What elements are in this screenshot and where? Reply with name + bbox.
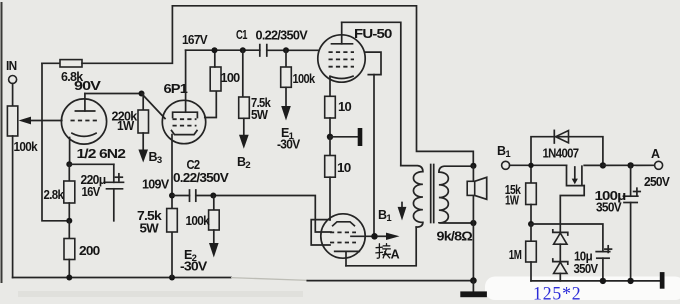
- svg-text:90V: 90V: [74, 79, 102, 93]
- wire V2 screen grid to 100 resistor: [205, 91, 217, 118]
- resistor 7.5k 5W plate load: [239, 50, 271, 122]
- node A terminal: [644, 147, 670, 189]
- scan border left edge: [1, 2, 3, 283]
- wire reference node horizontal: [531, 224, 603, 252]
- svg-text:2.8k: 2.8k: [44, 188, 64, 202]
- zener DW1: [553, 230, 568, 262]
- arrow B1 winding: [378, 203, 406, 225]
- svg-text:100k: 100k: [14, 140, 38, 154]
- node rectified junction: [600, 162, 606, 168]
- svg-text:200: 200: [79, 244, 100, 258]
- pentode V3 FU-50 envelope: [318, 35, 365, 82]
- ground chassis speaker: [460, 281, 487, 298]
- wire IN to potentiometer: [12, 84, 14, 107]
- wire speaker line: [472, 166, 474, 281]
- node PSU ground junctions: [600, 278, 634, 284]
- node secondary top: [470, 163, 476, 169]
- wire C2 left: [172, 195, 190, 197]
- node B1 terminal PSU: [497, 144, 511, 169]
- transformer T1 secondary: [439, 166, 473, 223]
- resistor 7.5k 5W cathode: [137, 209, 177, 236]
- wire 90V plate line: [85, 93, 142, 95]
- ground chassis PSU: [660, 272, 665, 289]
- wire V3 cathode lead: [329, 77, 331, 97]
- svg-text:109V: 109V: [142, 178, 170, 192]
- node plate junction: [371, 233, 378, 240]
- tetrode V4 lower envelope: [321, 214, 365, 258]
- V4 grid bracket: [311, 220, 330, 245]
- svg-text:10: 10: [338, 100, 352, 114]
- V3 cathode: [330, 76, 353, 78]
- wire 167V rail: [186, 49, 260, 51]
- svg-text:C2: C2: [187, 158, 201, 172]
- resistor 10 upper: [325, 96, 352, 134]
- resistor 10 lower: [325, 137, 352, 220]
- node 15k bottom junction: [528, 221, 534, 227]
- wire top feedback rail: [172, 6, 473, 166]
- wire B1 to pass element: [510, 164, 567, 166]
- wire 90V node to 6P1 grid: [142, 94, 166, 119]
- resistor 100 screen: [210, 50, 240, 91]
- node speaker ground junction: [470, 277, 477, 284]
- pentode V2 6P1 envelope: [162, 100, 205, 143]
- wire V4 plate to node: [351, 235, 372, 237]
- V4 cathode: [335, 251, 360, 265]
- node C2 right junction: [210, 193, 216, 199]
- V3 plate: [332, 22, 353, 44]
- capacitor C1 0.22/350V: [236, 28, 308, 56]
- wire screen loop down to lower plate node: [373, 75, 375, 237]
- zener DW2: [553, 259, 568, 281]
- svg-text:100: 100: [221, 71, 241, 85]
- node 2.8k bottom junction: [66, 218, 72, 224]
- capacitor C2 0.22/350V: [173, 158, 229, 201]
- wire V3 screen loop right: [365, 52, 381, 75]
- wire V2 cathode down to ground bus: [171, 135, 173, 278]
- node IN terminal: [6, 59, 17, 84]
- arrow E1 -30V: [277, 87, 301, 151]
- node B1 line junction: [528, 163, 533, 168]
- svg-text:5W: 5W: [140, 222, 159, 236]
- node 90V junction: [139, 91, 145, 97]
- resistor 100k grid leak FU-50: [281, 50, 315, 87]
- node C2 left junction: [169, 193, 175, 199]
- node ground bus junctions: [66, 275, 175, 281]
- node cathode junction: [327, 134, 333, 140]
- wire ground bus left segment: [13, 277, 231, 279]
- label jie A: [376, 244, 391, 259]
- transistor pass element: [567, 165, 601, 185]
- svg-text:0.22/350V: 0.22/350V: [256, 29, 309, 43]
- svg-text:5W: 5W: [251, 108, 268, 122]
- resistor 1M: [509, 224, 537, 281]
- wire C1 to FU-50 grid: [267, 49, 318, 51]
- V3 grid dashes: [329, 52, 355, 67]
- V2 plate: [173, 50, 198, 117]
- svg-text:1/2 6N2: 1/2 6N2: [77, 147, 126, 161]
- resistor 15k 1W: [505, 165, 537, 224]
- V1 plate: [75, 94, 94, 112]
- arrow to A (jie A): [378, 233, 400, 240]
- transformer T1 primary: [401, 166, 423, 228]
- arrow B3: [138, 133, 161, 166]
- V2 grid dashes: [173, 119, 197, 125]
- arrow E2 -30V: [180, 230, 219, 274]
- scan streak bottom: [18, 291, 303, 297]
- V1 cathode: [70, 133, 96, 164]
- svg-text:350V: 350V: [574, 262, 599, 276]
- wire cathode node to 220u cap: [69, 163, 114, 165]
- svg-text:C1: C1: [236, 28, 248, 42]
- svg-text:16V: 16V: [82, 185, 101, 199]
- resistor 100k lower grid leak: [186, 196, 220, 231]
- wire cathode to primary bottom: [346, 227, 416, 266]
- wire potentiometer bottom to ground bus: [12, 136, 14, 278]
- resistor 220k 1W: [112, 94, 149, 134]
- arrow B2: [237, 118, 250, 171]
- svg-text:IN: IN: [6, 59, 17, 73]
- node grid leak junction: [283, 47, 289, 53]
- svg-text:250V: 250V: [644, 175, 670, 189]
- svg-text:125*2: 125*2: [533, 284, 582, 304]
- wire ground bus right segment: [307, 280, 473, 282]
- svg-text:A: A: [651, 147, 660, 161]
- svg-text:FU-50: FU-50: [354, 27, 392, 41]
- node 167V junctions: [212, 47, 246, 53]
- wire 6.8k right leg to top rail: [82, 6, 172, 64]
- capacitor 100u 350V: [595, 165, 641, 281]
- capacitor C 220u 16V: [81, 164, 124, 221]
- svg-text:1W: 1W: [505, 194, 519, 208]
- transformer core: [431, 165, 434, 223]
- wire 6.8k left leg down: [42, 63, 67, 221]
- V2 cathode: [172, 131, 198, 135]
- svg-text:A: A: [391, 247, 400, 261]
- svg-text:-30V: -30V: [277, 138, 301, 152]
- svg-text:9k/8Ω: 9k/8Ω: [437, 230, 473, 244]
- white correction band: [485, 277, 680, 301]
- capacitor 10u 350V: [574, 246, 612, 281]
- wire potentiometer wiper to V1 grid: [19, 117, 62, 125]
- node secondary bottom: [470, 220, 476, 226]
- wire gate to zener reference: [560, 186, 584, 233]
- node cathode junction V1: [66, 161, 72, 167]
- svg-text:350V: 350V: [596, 201, 622, 215]
- svg-text:100k: 100k: [186, 214, 210, 228]
- V1 grid dashes: [71, 120, 99, 122]
- node output junction: [627, 162, 633, 168]
- resistor 6.8k feedback: [42, 60, 83, 84]
- wire PSU ground line: [531, 280, 660, 282]
- svg-text:-30V: -30V: [180, 260, 208, 274]
- potentiometer RP 100k: [7, 106, 37, 154]
- wire diode branch: [531, 137, 603, 166]
- V4 top electrode: [333, 222, 355, 226]
- wire V3 plate to transformer primary top: [342, 22, 401, 165]
- ground chassis bar mid: [330, 128, 362, 146]
- V4 grid dashes: [330, 232, 356, 242]
- svg-text:0.22/350V: 0.22/350V: [173, 171, 229, 185]
- svg-text:1W: 1W: [117, 119, 134, 133]
- svg-text:1N4007: 1N4007: [543, 147, 580, 161]
- svg-text:100k: 100k: [293, 72, 316, 86]
- svg-text:167V: 167V: [182, 33, 208, 47]
- diode D1 1N4007: [543, 130, 580, 160]
- resistor 200: [64, 221, 100, 278]
- wire C2 right to lower grid: [196, 196, 331, 233]
- speaker LS: [467, 177, 487, 199]
- wire faded bus connector: [231, 278, 308, 281]
- resistor 2.8k: [44, 164, 75, 221]
- svg-text:1M: 1M: [509, 248, 522, 262]
- wire B+ output line: [603, 164, 655, 166]
- svg-text:10: 10: [337, 161, 351, 175]
- triode V1 1/2 6N2 envelope: [61, 99, 106, 144]
- svg-text:6P1: 6P1: [164, 82, 188, 96]
